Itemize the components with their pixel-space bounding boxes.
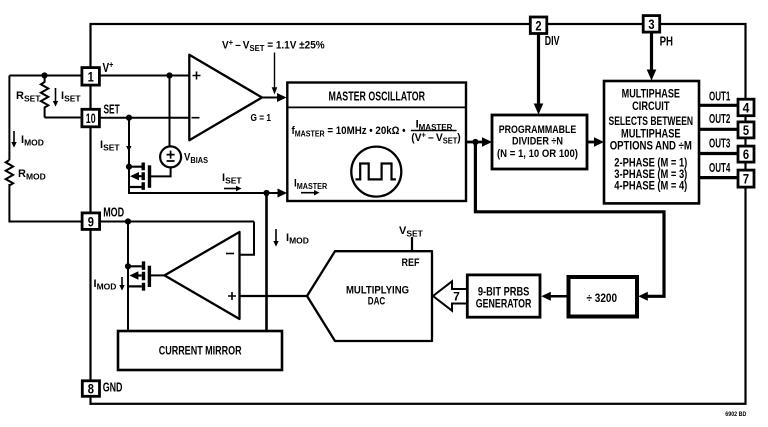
node V+/VBIAS junction (166, 72, 172, 78)
label VSET (399, 225, 424, 251)
svg-text:4-PHASE (M = 4): 4-PHASE (M = 4) (614, 181, 687, 193)
svg-text:6: 6 (743, 146, 749, 162)
wire OUT4 (699, 176, 739, 179)
wire SET to op-amp (99, 117, 189, 119)
svg-text:÷ 3200: ÷ 3200 (587, 291, 618, 305)
current arrow ISET (drop) (100, 139, 132, 153)
svg-text:3: 3 (648, 16, 654, 32)
svg-text:DAC: DAC (368, 296, 386, 308)
oscillator formula (292, 119, 462, 146)
pin 6 (738, 146, 754, 162)
svg-text:6902 BD: 6902 BD (725, 411, 746, 418)
svg-text:8: 8 (88, 381, 94, 397)
svg-text:OPTIONS AND ÷M: OPTIONS AND ÷M (610, 140, 692, 152)
svg-text:PROGRAMMABLE: PROGRAMMABLE (499, 124, 577, 136)
resistor RMOD (6, 160, 46, 185)
wire DAC plus input (240, 295, 307, 297)
svg-text:3-PHASE (M = 3): 3-PHASE (M = 3) (614, 169, 687, 181)
pin 3 (643, 16, 660, 32)
pin 8 (82, 381, 99, 397)
wire OUT2 (699, 128, 739, 131)
annotation V+ - VSET = 1.1V (222, 38, 325, 95)
op-amp U1 (189, 55, 271, 141)
resistor RSET (16, 76, 48, 118)
wire DIV arrow (537, 33, 540, 105)
wire op-amp to oscillator (262, 97, 279, 99)
pin 9 (82, 213, 100, 230)
svg-text:10: 10 (86, 110, 96, 126)
arrow into oscillator IMASTER (278, 189, 288, 198)
wire OUT3 (699, 152, 739, 155)
wire VBIAS drop (169, 76, 171, 148)
svg-text:OUT2: OUT2 (709, 112, 730, 126)
wire mirror feed (265, 193, 268, 331)
node ISET/mirror junction (263, 190, 269, 196)
bus arrow 7 to DAC (433, 281, 467, 310)
wire OUT1 (699, 104, 739, 107)
svg-text:4: 4 (743, 100, 750, 116)
svg-text:CURRENT MIRROR: CURRENT MIRROR (159, 344, 242, 358)
svg-text:7: 7 (743, 171, 749, 187)
master oscillator box U2 (287, 83, 466, 202)
svg-text:MULTIPHASE: MULTIPHASE (622, 89, 681, 101)
current arrow IMOD (mid) (273, 229, 309, 247)
current arrow IMOD (left) (11, 131, 44, 148)
multiphase circuit box (604, 81, 699, 203)
pin 4 (738, 99, 754, 116)
pin 1 (82, 68, 100, 86)
pin label V+ (103, 60, 114, 75)
node SET/ISET junction (126, 115, 132, 121)
svg-text:DIVIDER ÷N: DIVIDER ÷N (512, 135, 563, 147)
transistor Q2 (128, 261, 149, 290)
wire RSET to SET (45, 117, 85, 119)
wire 3200 to PRBS (550, 295, 567, 298)
svg-text:PH: PH (660, 34, 673, 48)
chip outline (91, 24, 746, 404)
svg-text:OUT3: OUT3 (709, 137, 730, 151)
current arrow ISET (by RSET) (53, 88, 82, 107)
svg-text:5: 5 (743, 122, 749, 138)
svg-text:(N = 1, 10 OR 100): (N = 1, 10 OR 100) (497, 148, 578, 160)
pin 7 (738, 170, 754, 187)
svg-text:1: 1 (88, 68, 94, 84)
wire VBIAS to gate (151, 167, 171, 176)
wire Q2 column (127, 222, 129, 332)
current arrow ISET (to oscillator) (222, 172, 242, 191)
node MOD junction (125, 218, 131, 224)
node V+/RSET junction (41, 72, 47, 78)
svg-text:OUT4: OUT4 (709, 161, 730, 175)
node Q1 drain junction (126, 164, 132, 170)
wire V+ to op-amp (99, 75, 189, 77)
multiplying DAC (307, 251, 432, 341)
wire ISET drop (129, 118, 283, 193)
label IMASTER (294, 178, 328, 195)
transistor Q1 (129, 163, 150, 190)
svg-text:SET: SET (104, 102, 120, 116)
9-bit PRBS generator box (467, 275, 540, 317)
current arrow IMOD (Q2) (94, 277, 125, 292)
svg-text:G = 1: G = 1 (251, 112, 272, 124)
svg-text:REF: REF (402, 257, 420, 269)
svg-text:MOD: MOD (103, 206, 124, 220)
svg-text:9: 9 (88, 213, 94, 229)
node feedback junction (472, 139, 478, 145)
wire MOD feedback to minus input (240, 222, 254, 255)
svg-text:V+ – VSET = 1.1V ±25%: V+ – VSET = 1.1V ±25% (222, 38, 325, 53)
svg-text:2-PHASE (M = 1): 2-PHASE (M = 1) (614, 157, 687, 169)
wire U3 output to Q2 gate (151, 274, 165, 276)
arrow into oscillator (277, 93, 287, 102)
op-amp U3 (165, 232, 240, 319)
svg-text:GENERATOR: GENERATOR (476, 297, 532, 311)
divide-by-3200 box (569, 277, 638, 317)
wire divider to multiphase (587, 141, 596, 144)
wire oscillator to divider (466, 141, 484, 144)
feedback wire to divide-by-3200 (475, 142, 664, 296)
svg-text:OUT1: OUT1 (709, 90, 730, 104)
svg-text:CIRCUIT: CIRCUIT (632, 101, 669, 113)
wire Rmod column (8, 76, 10, 161)
programmable divider box (492, 115, 587, 169)
svg-text:GND: GND (103, 381, 123, 395)
voltage source VBIAS (160, 146, 208, 167)
oscillator waveform symbol (351, 147, 401, 197)
svg-text:SELECTS BETWEEN: SELECTS BETWEEN (609, 116, 694, 128)
pin 10 (82, 109, 100, 127)
wire V+ rail left (9, 75, 84, 77)
svg-text:7: 7 (453, 289, 460, 303)
svg-text:2: 2 (535, 17, 541, 33)
node Q2 drain junction (125, 263, 131, 269)
pin 5 (738, 122, 754, 138)
current mirror box (118, 331, 282, 370)
svg-text:DIV: DIV (545, 34, 560, 48)
wire Rmod to pin9 (9, 184, 83, 222)
wire MOD from pin9 (100, 221, 254, 223)
wire PH arrow (650, 32, 653, 72)
pin 2 (530, 17, 547, 34)
svg-text:MULTIPHASE: MULTIPHASE (621, 128, 681, 140)
svg-text:MASTER OSCILLATOR: MASTER OSCILLATOR (329, 88, 426, 103)
